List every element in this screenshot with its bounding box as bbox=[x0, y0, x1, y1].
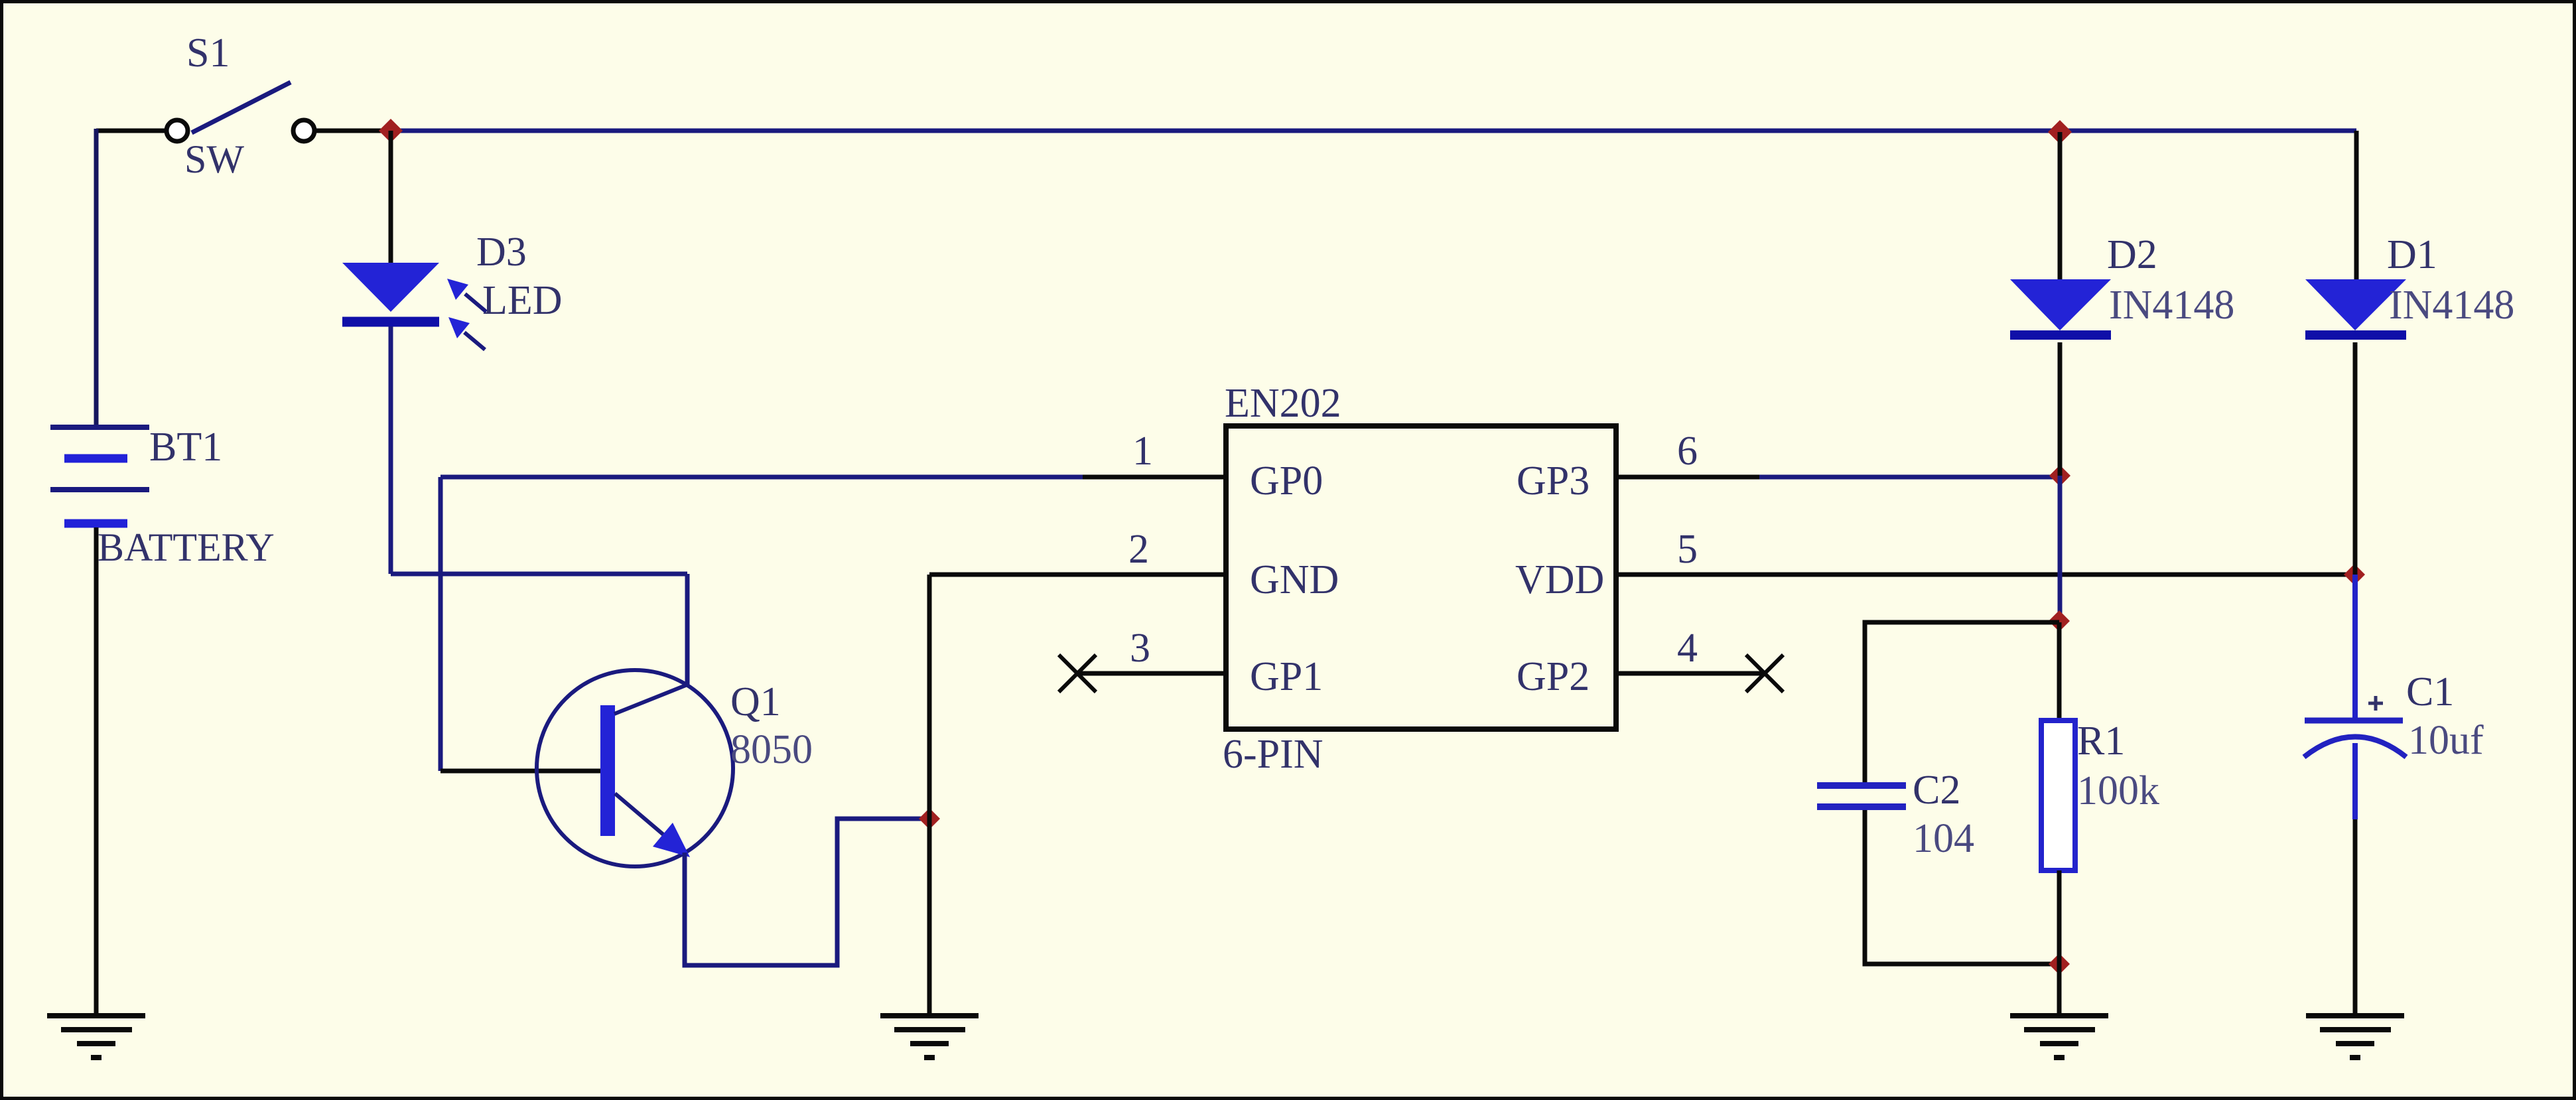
svg-text:5: 5 bbox=[1677, 527, 1698, 572]
svg-text:10uf: 10uf bbox=[2408, 718, 2484, 763]
label C1 plus sign bbox=[2368, 696, 2383, 711]
pin 6 stub bbox=[1616, 475, 1759, 480]
resistor R1 bbox=[2041, 721, 2075, 870]
wire switch to node A bbox=[316, 129, 391, 133]
pin 4 stub bbox=[1616, 671, 1762, 676]
node C2/R1 bottom junction dot bbox=[2049, 953, 2070, 975]
node A junction dot bbox=[379, 119, 403, 143]
wire pin1 net bbox=[441, 475, 1083, 480]
ground (battery) bbox=[47, 1016, 145, 1058]
ground (R1/C2) bbox=[2010, 1016, 2108, 1058]
wire GND net vertical bbox=[927, 575, 932, 1016]
svg-text:S1: S1 bbox=[186, 31, 230, 76]
svg-text:D3: D3 bbox=[476, 230, 527, 275]
svg-text:GP2: GP2 bbox=[1517, 654, 1590, 699]
wire top bus corner down to D1 bbox=[2354, 131, 2359, 280]
svg-text:6: 6 bbox=[1677, 429, 1698, 474]
wire left rail vertical to battery bbox=[94, 129, 99, 427]
svg-text:C2: C2 bbox=[1913, 768, 1960, 813]
transistor Q1 bbox=[537, 670, 733, 866]
svg-text:R1: R1 bbox=[2077, 719, 2125, 764]
node B junction dot (D2 tap) bbox=[2048, 120, 2072, 144]
wire top bus bbox=[391, 129, 2356, 133]
svg-text:GP0: GP0 bbox=[1250, 458, 1323, 504]
pin 3 stub bbox=[1080, 671, 1226, 676]
wire D1 to VDD node bbox=[2353, 342, 2358, 575]
LED arrow 2 bbox=[464, 332, 485, 350]
svg-text:1: 1 bbox=[1132, 429, 1153, 474]
wire pin6 node down to C2/R1 node bbox=[2058, 476, 2063, 622]
svg-text:SW: SW bbox=[184, 137, 244, 181]
svg-text:VDD: VDD bbox=[1515, 557, 1604, 602]
node VDD junction dot bbox=[2344, 564, 2365, 585]
pin 4 no-connect X bbox=[1746, 655, 1783, 692]
svg-text:IN4148: IN4148 bbox=[2109, 283, 2234, 328]
pin 5 stub and VDD wire bbox=[1616, 573, 2354, 577]
svg-text:GP1: GP1 bbox=[1250, 654, 1323, 699]
svg-text:D2: D2 bbox=[2107, 232, 2157, 277]
svg-text:8050: 8050 bbox=[730, 727, 813, 772]
capacitor C2 bbox=[1817, 786, 1906, 807]
svg-text:BATTERY: BATTERY bbox=[98, 525, 275, 569]
wire D3 to corner bbox=[389, 326, 393, 574]
pin 3 no-connect X bbox=[1059, 655, 1096, 692]
wire pin6 net bbox=[1759, 475, 2060, 480]
wire C2 top bracket bbox=[1865, 622, 2059, 786]
wire node A down to LED D3 bbox=[389, 131, 393, 264]
node pin6 junction dot bbox=[2049, 465, 2070, 486]
svg-text:3: 3 bbox=[1130, 626, 1150, 671]
wire emitter path bbox=[685, 819, 929, 965]
svg-text:4: 4 bbox=[1677, 626, 1698, 671]
diode D2 bbox=[2010, 279, 2111, 335]
wire D2 to pin6 node bbox=[2058, 342, 2063, 476]
LED D3 bbox=[342, 263, 439, 322]
svg-text:LED: LED bbox=[482, 278, 563, 323]
wire R1 bottom bbox=[2057, 870, 2062, 1016]
diode D1 bbox=[2305, 279, 2406, 335]
node C2/R1 top junction dot bbox=[2049, 610, 2070, 632]
ground (GND net) bbox=[880, 1016, 979, 1058]
wire node B down to D2 bbox=[2058, 132, 2063, 280]
svg-text:EN202: EN202 bbox=[1225, 381, 1341, 426]
svg-text:BT1: BT1 bbox=[149, 425, 222, 470]
svg-text:100k: 100k bbox=[2077, 768, 2159, 813]
wire pin1 vertical to base bbox=[439, 477, 443, 771]
pin 1 stub bbox=[1083, 475, 1226, 480]
svg-text:2: 2 bbox=[1128, 527, 1149, 572]
svg-text:IN4148: IN4148 bbox=[2389, 283, 2514, 328]
LED arrow 1 bbox=[465, 294, 486, 312]
svg-text:D1: D1 bbox=[2387, 232, 2437, 277]
wire left rail top horizontal bbox=[96, 129, 166, 133]
wire down to collector bbox=[685, 574, 690, 685]
battery BT1 bbox=[50, 427, 149, 523]
IC U1 EN202 box bbox=[1226, 426, 1616, 729]
svg-text:104: 104 bbox=[1913, 816, 1974, 861]
svg-text:GP3: GP3 bbox=[1517, 458, 1590, 504]
wire VDD node to C1 bbox=[2352, 575, 2358, 721]
svg-text:Q1: Q1 bbox=[730, 679, 781, 724]
wire battery to ground bbox=[94, 527, 99, 1016]
capacitor C1 bbox=[2304, 721, 2406, 757]
svg-text:C1: C1 bbox=[2406, 669, 2454, 715]
wire base bbox=[441, 769, 600, 774]
wire C1 to ground bbox=[2352, 743, 2358, 819]
wire R1 top bbox=[2057, 622, 2062, 721]
svg-text:GND: GND bbox=[1250, 557, 1339, 602]
wire horizontal to collector bbox=[391, 572, 687, 577]
pin 2 stub and GND wire bbox=[929, 573, 1226, 577]
node emitter junction dot bbox=[919, 808, 940, 829]
switch S1 bbox=[167, 82, 314, 141]
ground (C1) bbox=[2306, 1016, 2404, 1058]
svg-text:6-PIN: 6-PIN bbox=[1223, 732, 1323, 777]
wire C2 bottom bracket bbox=[1865, 810, 2059, 964]
